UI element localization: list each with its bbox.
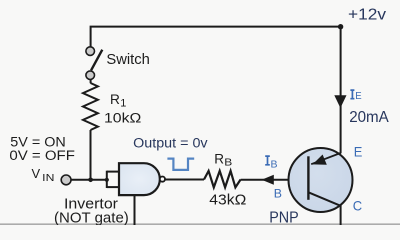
svg-text:V: V bbox=[32, 166, 41, 181]
svg-text:E: E bbox=[355, 90, 361, 102]
svg-text:Switch: Switch bbox=[106, 52, 149, 68]
svg-text:20mA: 20mA bbox=[349, 109, 389, 126]
svg-text:R: R bbox=[110, 92, 120, 107]
svg-text:B: B bbox=[274, 187, 282, 201]
svg-text:(NOT gate): (NOT gate) bbox=[54, 210, 129, 225]
svg-text:Output = 0v: Output = 0v bbox=[133, 135, 208, 150]
svg-text:1: 1 bbox=[120, 98, 126, 110]
svg-text:PNP: PNP bbox=[269, 210, 299, 225]
svg-text:R: R bbox=[214, 151, 224, 166]
svg-text:IN: IN bbox=[42, 172, 54, 184]
svg-text:E: E bbox=[354, 143, 363, 159]
svg-text:43kΩ: 43kΩ bbox=[209, 191, 246, 208]
svg-text:10kΩ: 10kΩ bbox=[104, 110, 141, 126]
svg-text:B: B bbox=[224, 156, 232, 168]
svg-text:0V = OFF: 0V = OFF bbox=[9, 148, 75, 164]
svg-text:B: B bbox=[271, 158, 278, 170]
svg-text:C: C bbox=[353, 198, 362, 214]
svg-text:+12v: +12v bbox=[348, 6, 386, 23]
